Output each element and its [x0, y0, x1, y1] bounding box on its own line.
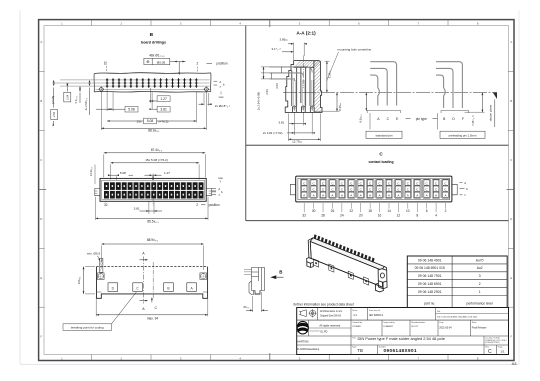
svg-text:22: 22: [350, 209, 354, 213]
svg-text:5.35ₐₐ: 5.35ₐₐ: [328, 70, 332, 78]
section line A-A: [142, 257, 144, 304]
svg-text:09 06 148 6901 015: 09 06 148 6901 015: [415, 266, 445, 270]
bottom view dim 23 vertical: [83, 267, 85, 294]
bracket preleading pin: [441, 110, 469, 113]
svg-text:TB: TB: [357, 348, 363, 353]
A-A gray pins below body with taper: [293, 105, 295, 108]
A-A pin bends inside body: [294, 67, 312, 81]
svg-text:A: A: [510, 40, 512, 44]
side view dim 6: [252, 296, 254, 312]
svg-text:breaking point for coding: breaking point for coding: [71, 326, 104, 330]
svg-text:1:1: 1:1: [353, 313, 357, 317]
A-A gray pins horizontal entering: [270, 66, 309, 67]
svg-text:09 06 148 2901: 09 06 148 2901: [418, 290, 442, 294]
A-A dim 5.35 min vertical: [326, 61, 328, 92]
svg-text:3.81: 3.81: [160, 107, 167, 111]
dim 15x 5.08 (=76.2) view B: [107, 120, 196, 122]
svg-text:D: D: [510, 217, 512, 221]
preleading pin label box: [440, 131, 485, 138]
bottom view hidden top edge dashed: [97, 266, 208, 268]
dim 6.5 vertical: [365, 93, 367, 112]
pin type text: [406, 118, 411, 120]
A-A hatching top arm: [295, 61, 322, 68]
svg-text:Department: Department: [310, 330, 320, 333]
dim 88.9 view B: [101, 127, 206, 129]
svg-text:2x 3.81 (=7.62): 2x 3.81 (=7.62): [263, 131, 283, 135]
svg-text:B: B: [279, 270, 282, 275]
svg-text:88.9±₀.₁: 88.9±₀.₁: [148, 129, 159, 133]
svg-text:IEC 60603-2: IEC 60603-2: [369, 314, 384, 317]
svg-text:mounting hole centerline: mounting hole centerline: [338, 48, 372, 52]
svg-text:14: 14: [387, 209, 391, 213]
svg-text:C: C: [510, 158, 512, 162]
view C left ear: [290, 184, 295, 195]
svg-text:3.85ₐₐ: 3.85ₐₐ: [279, 38, 288, 42]
dim 5.08 view B: [125, 106, 138, 112]
svg-text:87.4±₀.₁: 87.4±₀.₁: [151, 148, 162, 152]
svg-text:Inspected by: Inspected by: [383, 321, 394, 324]
svg-text:6.5±₀.₁: 6.5±₀.₁: [358, 114, 362, 122]
svg-text:15x 5.08 (=76.2): 15x 5.08 (=76.2): [145, 158, 168, 162]
svg-text:HARTING: HARTING: [298, 340, 309, 343]
view B direction arrow: [270, 275, 276, 279]
svg-text:C: C: [40, 158, 42, 162]
svg-text:15x: 15x: [137, 120, 142, 124]
svg-text:2: 2: [445, 209, 447, 213]
svg-text:20: 20: [359, 214, 363, 218]
svg-text:board drillings: board drillings: [141, 40, 166, 44]
outer drawing frame: [39, 20, 514, 361]
svg-text:2021-05-04: 2021-05-04: [439, 327, 452, 330]
svg-text:32: 32: [103, 61, 107, 65]
svg-text:max. 94: max. 94: [147, 317, 159, 321]
pin type diagram preleading pins B D F: [436, 75, 445, 108]
svg-text:Au70: Au70: [476, 258, 484, 262]
svg-text:Ref.: Ref.: [437, 311, 441, 313]
bottom view coding windows D C B A: [108, 283, 118, 292]
section divider vertical: [245, 26, 247, 221]
view C right ear: [452, 184, 457, 195]
svg-text:row: row: [219, 95, 225, 99]
svg-text:85.5±₀.₁: 85.5±₀.₁: [147, 220, 158, 224]
svg-text:2.54: 2.54: [65, 94, 69, 100]
svg-text:5.08: 5.08: [120, 171, 126, 175]
svg-text:09 06 148 6901: 09 06 148 6901: [418, 282, 442, 286]
svg-text:A: A: [40, 40, 42, 44]
svg-text:Standardisation: Standardisation: [411, 321, 425, 324]
svg-text:7.45⁺₀·²⁵: 7.45⁺₀·²⁵: [471, 115, 475, 126]
svg-text:23±₀.₁: 23±₀.₁: [77, 277, 81, 285]
dim 3.81 view B: [157, 106, 170, 112]
A-A datum centerline horizontal: [283, 92, 497, 94]
svg-text:Scale: Scale: [352, 310, 358, 312]
svg-text:E: E: [510, 276, 512, 280]
view B row centerlines: [60, 79, 210, 81]
svg-text:min. Ø0.5: min. Ø0.5: [87, 251, 101, 255]
svg-text:A3: A3: [512, 361, 518, 366]
svg-text:C: C: [154, 306, 157, 310]
zone ticks and numbers top/bottom: [91, 20, 93, 26]
A-A centerline vertical: [302, 56, 304, 89]
bottom view dim 88.9: [102, 243, 204, 245]
harting logo: [297, 321, 308, 334]
svg-text:pin type: pin type: [416, 117, 427, 121]
svg-text:further information see produc: further information see product data she…: [294, 302, 354, 306]
svg-text:2: 2: [479, 282, 481, 286]
svg-text:3.81: 3.81: [134, 206, 140, 210]
svg-text:1.27: 1.27: [160, 97, 167, 101]
view B lower dimension extension lines: [100, 92, 102, 130]
svg-text:(=5.08): (=5.08): [51, 96, 55, 104]
svg-text:preleading pin 1.5mm: preleading pin 1.5mm: [449, 133, 477, 137]
svg-text:88.9±₀.₁: 88.9±₀.₁: [147, 238, 158, 242]
section divider horizontal lower: [246, 220, 509, 222]
bottom view bottom step lines: [97, 291, 102, 293]
svg-text:E16448(MOTHER): E16448(MOTHER): [485, 342, 500, 344]
svg-text:B: B: [40, 99, 42, 103]
svg-text:1: 1: [479, 290, 481, 294]
svg-text:2x 2.54 (=5.08): 2x 2.54 (=5.08): [257, 92, 261, 110]
svg-text:2.54: 2.54: [275, 83, 279, 89]
view C pin number ticks and numbers alternating: [304, 203, 445, 212]
svg-text:2.54: 2.54: [52, 111, 56, 117]
front view dim 85.5 bottom: [96, 217, 209, 219]
front view body outline: [100, 178, 206, 201]
front view dim 15x 5.08: [111, 162, 200, 164]
svg-text:5.08: 5.08: [128, 107, 135, 111]
svg-text:3.1⁺₀·³: 3.1⁺₀·³: [272, 47, 281, 51]
svg-text:E: E: [40, 276, 42, 280]
svg-text:position: position: [209, 203, 220, 207]
view C body outline: [296, 176, 452, 202]
svg-text:4: 4: [435, 214, 437, 218]
svg-text:EL PD: EL PD: [321, 330, 328, 333]
view B pcb band outline broken edges: [94, 72, 211, 75]
bottom view right end block with hole: [200, 273, 207, 280]
svg-text:position: position: [217, 62, 228, 66]
svg-text:Final Release: Final Release: [472, 327, 487, 330]
svg-text:Sub. 70 01 06 148 6901 / Ma: Sub. 70 01 06 148 6901 / Mat.3680 / 2t 0…: [437, 316, 477, 319]
bottom view body outline: [97, 267, 208, 299]
svg-text:A-A (2:1): A-A (2:1): [296, 31, 316, 36]
view C arrow on bottom view: [152, 262, 154, 299]
dim 7.45 vertical: [481, 93, 483, 113]
svg-text:14.3±₀.₁: 14.3±₀.₁: [89, 167, 93, 177]
svg-text:Original Size DIN A3: Original Size DIN A3: [320, 315, 342, 318]
A-A section body outline: [285, 61, 322, 113]
svg-text:16: 16: [378, 214, 382, 218]
view C row labels d b z: [460, 182, 463, 184]
front view dim 87.4: [104, 152, 206, 154]
front view contact grid dark squares: [104, 182, 109, 190]
datum plane triangle marker: [493, 93, 497, 100]
svg-text:32: 32: [302, 214, 306, 218]
svg-text:2x 2.54±₀.₁: 2x 2.54±₀.₁: [84, 98, 88, 111]
svg-text:B: B: [150, 32, 154, 38]
svg-text:C: C: [488, 349, 492, 355]
svg-text:0906148X901: 0906148X901: [384, 348, 418, 353]
bottom view left end block with hole: [98, 273, 105, 280]
breaking point label box: [63, 324, 112, 331]
svg-text:Au2: Au2: [477, 266, 483, 270]
zone ticks and letters left/right: [39, 71, 45, 73]
svg-text:1.27: 1.27: [164, 171, 170, 175]
small side view of connector end: [244, 268, 265, 295]
bottom view dim max 94: [96, 314, 208, 316]
bracket standard pin: [367, 110, 400, 113]
svg-text:3: 3: [479, 274, 481, 278]
svg-text:⊕: ⊕: [146, 59, 150, 64]
svg-text:6: 6: [426, 209, 428, 213]
projection symbol: [299, 309, 317, 317]
svg-text:All rights reserved: All rights reserved: [319, 323, 340, 327]
leader breaking point to window C: [112, 292, 137, 324]
svg-text:1/1: 1/1: [500, 349, 504, 353]
front view left ear: [95, 188, 100, 195]
svg-text:12.75ₐₐ: 12.75ₐₐ: [292, 139, 303, 143]
svg-text:Ø0.05: Ø0.05: [157, 60, 166, 64]
3D view coding windows: [314, 259, 319, 267]
svg-text:Free size tol.: Free size tol.: [369, 309, 381, 312]
section divider horizontal upper: [246, 144, 509, 146]
svg-text:SCOTT: SCOTT: [411, 326, 419, 328]
view B mounting hole diamonds: [99, 87, 104, 92]
bottom view breakable coding pin: [100, 258, 103, 272]
svg-text:F: F: [510, 335, 512, 339]
svg-text:24: 24: [340, 214, 344, 218]
title block verticals rows C D: [350, 336, 352, 355]
svg-text:D-32339 Espelkamp: D-32339 Espelkamp: [298, 348, 320, 351]
svg-text:6±₀.₁: 6±₀.₁: [244, 305, 250, 309]
svg-text:2.54: 2.54: [265, 89, 269, 95]
svg-text:3.81: 3.81: [278, 120, 284, 124]
svg-text:LUMBERT: LUMBERT: [383, 326, 394, 328]
svg-text:All Dimensions in mm: All Dimensions in mm: [320, 310, 342, 313]
svg-text:28: 28: [321, 214, 325, 218]
svg-text:(=76.2): (=76.2): [159, 120, 169, 124]
svg-text:DIN Power type F male solder a: DIN Power type F male solder angled 2.54…: [358, 336, 445, 341]
leader from callout to drill row: [170, 61, 186, 63]
svg-text:F: F: [462, 117, 464, 121]
front view centerline: [152, 174, 154, 206]
view B row labels right: [214, 80, 218, 82]
svg-text:standard pin: standard pin: [375, 133, 392, 137]
svg-text:D: D: [40, 217, 42, 221]
dim 2x diam 2.8 view B: [199, 103, 204, 105]
paper edge lines: [19, 10, 21, 364]
A-A dim 8.35 min vertical: [336, 93, 338, 112]
parts table: [407, 256, 507, 308]
svg-text:datum plane: datum plane: [489, 104, 493, 121]
standard pin label box: [366, 131, 402, 138]
inner drawing frame: [44, 26, 509, 355]
svg-text:48x Ø1₊₀.₁: 48x Ø1₊₀.₁: [149, 54, 164, 58]
svg-text:8: 8: [416, 214, 418, 218]
A-A gray pin channels inside body: [294, 80, 296, 105]
svg-text:30: 30: [312, 209, 316, 213]
svg-text:18: 18: [368, 209, 372, 213]
title block verticals row A: [317, 308, 319, 321]
svg-text:12: 12: [397, 214, 401, 218]
svg-text:2: 2: [197, 62, 199, 66]
pin type diagram standard pins A C E: [370, 75, 379, 105]
title block verticals row B: [307, 320, 309, 336]
svg-text:26: 26: [331, 209, 335, 213]
svg-text:contact loading: contact loading: [368, 160, 393, 164]
view B drill crosses 3 rows x 16 columns: [106, 78, 198, 87]
svg-text:part no.: part no.: [424, 302, 435, 306]
svg-text:row: row: [218, 176, 224, 180]
svg-text:Created by: Created by: [352, 321, 362, 324]
3D view comb base line: [313, 238, 384, 267]
svg-text:performance level: performance level: [467, 302, 493, 306]
svg-text:09 06 148 7901: 09 06 148 7901: [418, 274, 442, 278]
3D view pin comb: [314, 234, 375, 262]
3D isometric view of connector: [307, 238, 387, 292]
svg-text:5.3₊₀.₁: 5.3₊₀.₁: [74, 96, 78, 104]
svg-text:2x Ø2.8⁺₀·¹: 2x Ø2.8⁺₀·¹: [215, 104, 230, 108]
view C contact cells 16 columns x 3 rows with letters: [300, 179, 308, 198]
svg-text:10: 10: [406, 209, 410, 213]
front view dim 3.81: [148, 202, 150, 214]
svg-text:5.08: 5.08: [147, 119, 154, 123]
svg-text:STOBER: STOBER: [352, 326, 361, 328]
title block outline: [297, 308, 509, 355]
svg-text:8.35ₐₐ: 8.35ₐₐ: [338, 102, 342, 110]
svg-text:F: F: [40, 335, 42, 339]
front view right ear: [206, 188, 211, 195]
svg-text:B: B: [510, 99, 512, 103]
svg-text:32: 32: [104, 203, 108, 207]
dim 1.27 view B: [157, 96, 170, 102]
svg-text:2: 2: [196, 203, 198, 207]
svg-text:09 06 148 4901: 09 06 148 4901: [418, 258, 442, 262]
